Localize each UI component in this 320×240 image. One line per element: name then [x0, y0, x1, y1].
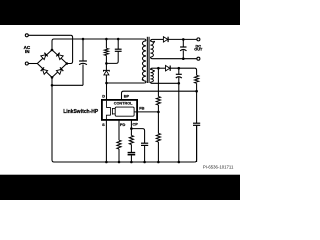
svg-text:PI-6536-101711: PI-6536-101711 [203, 165, 234, 170]
svg-text:IN: IN [25, 49, 30, 54]
svg-text:BP: BP [124, 93, 130, 98]
svg-text:PD: PD [120, 122, 126, 127]
svg-text:OUT: OUT [194, 48, 203, 52]
svg-text:CONTROL: CONTROL [114, 102, 133, 106]
svg-text:FB: FB [139, 105, 144, 110]
svg-text:LinkSwitch-HP: LinkSwitch-HP [63, 109, 99, 115]
svg-text:CP: CP [132, 122, 138, 127]
svg-text:D: D [102, 93, 105, 98]
svg-text:S: S [102, 122, 105, 127]
